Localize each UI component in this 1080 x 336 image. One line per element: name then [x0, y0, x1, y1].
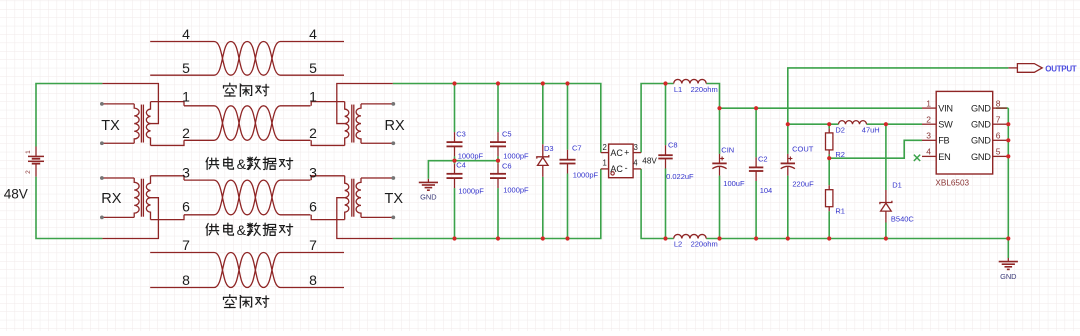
- junction: [827, 122, 831, 126]
- svg-text:8: 8: [309, 272, 317, 288]
- svg-text:8: 8: [996, 98, 1001, 108]
- pair pin number 2 (right): [309, 125, 317, 141]
- svg-text:7: 7: [309, 237, 317, 253]
- value 100uF (CIN): [723, 179, 745, 188]
- label D1: [892, 181, 902, 190]
- wire: bridge + output to L1 (top rail after rectifier): [641, 84, 674, 153]
- inductor L1: [674, 79, 707, 83]
- label 空闲对 (spare pair, bottom): [223, 295, 268, 308]
- value 1000pF (C6): [503, 186, 529, 195]
- svg-text:&: &: [237, 222, 247, 238]
- svg-text:GND: GND: [971, 104, 991, 114]
- pin number 2 (bridge): [602, 143, 606, 152]
- svg-text:1: 1: [309, 88, 317, 104]
- svg-text:C2: C2: [758, 154, 768, 163]
- op-amp/regulator U1 XBL6503: [922, 91, 1007, 174]
- svg-text:RX: RX: [385, 118, 405, 134]
- svg-text:GND: GND: [1000, 272, 1016, 281]
- pair pin number 6 (left): [182, 199, 190, 215]
- svg-text:6: 6: [996, 131, 1001, 141]
- wire: FB line from divider to IC pin 3: [829, 140, 922, 158]
- svg-text:220ohm: 220ohm: [691, 85, 718, 94]
- label 供电&数据对 (pair 3/6): [206, 222, 293, 238]
- capacitor C5: [490, 132, 506, 156]
- pin number 4 (bridge): [633, 159, 638, 168]
- label L1: [674, 85, 682, 94]
- pin number 3 (bridge): [634, 143, 638, 152]
- wire: SW line from COUT node to 47uH: [788, 123, 839, 125]
- svg-text:5: 5: [996, 147, 1001, 157]
- junction: [717, 106, 721, 110]
- junction: [827, 236, 831, 240]
- svg-text:2: 2: [926, 114, 931, 124]
- pair pin number 6 (right): [309, 199, 317, 215]
- svg-text:CIN: CIN: [721, 145, 734, 154]
- resistor R1: [826, 185, 833, 211]
- junction: [496, 159, 500, 163]
- capacitor C2: [749, 157, 763, 181]
- svg-text:L1: L1: [674, 85, 682, 94]
- pair pin number 8 (right): [309, 272, 317, 288]
- svg-text:B540C: B540C: [891, 215, 915, 224]
- svg-text:8: 8: [182, 272, 190, 288]
- pair pin number 1 (left): [182, 88, 190, 104]
- svg-text:C8: C8: [668, 141, 678, 150]
- junction: [663, 81, 667, 85]
- wire: diode D1 branch: [885, 124, 887, 238]
- twisted pair 3/6 (power & data pair): [184, 180, 310, 215]
- junction: [827, 156, 831, 160]
- diode D3: [537, 144, 549, 177]
- svg-text:2: 2: [309, 125, 317, 141]
- label 空闲对 (spare pair, top): [223, 83, 268, 96]
- svg-text:&: &: [237, 156, 247, 172]
- label C3: [456, 130, 466, 139]
- svg-text:1000pF: 1000pF: [503, 152, 529, 161]
- wire: diode D3 branch: [542, 84, 544, 239]
- junction: [452, 81, 456, 85]
- svg-text:1: 1: [182, 88, 190, 104]
- svg-text:1000pF: 1000pF: [503, 186, 529, 195]
- svg-text:L2: L2: [674, 239, 682, 248]
- wire: 47uH to IC pin 2: [867, 123, 923, 125]
- transformer T3 (right RX): [311, 84, 395, 146]
- svg-text:-: -: [625, 163, 628, 173]
- pin number 1 (bridge): [602, 159, 606, 168]
- capacitor C8: [658, 145, 672, 168]
- svg-text:4: 4: [633, 159, 638, 168]
- pair pin number 2 (left): [182, 125, 190, 141]
- svg-text:4: 4: [182, 26, 190, 42]
- svg-text:5: 5: [182, 60, 190, 76]
- label COUT: [792, 145, 814, 154]
- pair pin number 5 (left): [182, 60, 190, 76]
- svg-text:220ohm: 220ohm: [691, 239, 718, 248]
- svg-text:104: 104: [760, 186, 773, 195]
- pair pin number 7 (right): [309, 237, 317, 253]
- svg-text:47uH: 47uH: [862, 126, 880, 135]
- pair pin number 1 (right): [309, 88, 317, 104]
- svg-text:1000pF: 1000pF: [458, 187, 484, 196]
- svg-text:2: 2: [182, 125, 190, 141]
- junction: [1006, 154, 1010, 158]
- pair pin number 7 (left): [182, 237, 190, 253]
- transformer T2 (left RX): [100, 176, 184, 239]
- wire: OUTPUT riser / COUT branch: [788, 68, 1009, 239]
- wire: capacitor C8 branch: [665, 84, 667, 239]
- svg-text:AC: AC: [610, 164, 623, 174]
- capacitor COUT: [781, 154, 795, 176]
- net label OUTPUT: [1045, 64, 1077, 73]
- label C2: [758, 154, 768, 163]
- svg-text:3: 3: [309, 164, 317, 180]
- label CIN: [721, 145, 734, 154]
- wire: capacitor C7 branch: [567, 84, 569, 239]
- junction: [1006, 236, 1010, 240]
- twisted pair 4/5 (spare pair): [150, 42, 344, 76]
- junction: [884, 236, 888, 240]
- ground symbol (left): [419, 179, 438, 202]
- svg-text:2: 2: [602, 143, 606, 152]
- svg-text:AC: AC: [610, 148, 623, 158]
- label RX (right): [385, 118, 405, 134]
- twisted pair 1/2 (power & data pair): [184, 106, 310, 141]
- svg-text:C4: C4: [456, 161, 466, 170]
- wire: L1 to VIN line corner and CIN branch: [706, 84, 719, 239]
- value 0.022uF (C8): [666, 172, 694, 181]
- junction: [754, 236, 758, 240]
- wire: RX2 center tap rail to bridge AC pin 2 (top right rail): [393, 84, 601, 153]
- junction: [717, 236, 721, 240]
- value 220ohm (L2): [691, 239, 718, 248]
- svg-text:5: 5: [309, 60, 317, 76]
- diode D1: [880, 190, 892, 223]
- transformer T4 (right TX): [311, 176, 395, 239]
- svg-text:GND: GND: [971, 120, 991, 130]
- value B540C (D1): [891, 215, 915, 224]
- label C8: [668, 141, 678, 150]
- svg-text:D1: D1: [892, 181, 902, 190]
- pair pin number 4 (right): [309, 26, 317, 42]
- svg-text:GND: GND: [971, 136, 991, 146]
- svg-text:4: 4: [926, 147, 931, 157]
- wire: L2 to bottom rail towards GND: [706, 238, 1008, 240]
- svg-text:7: 7: [996, 114, 1001, 124]
- label D3: [544, 144, 554, 153]
- pair pin number 3 (right): [309, 164, 317, 180]
- capacitor CIN: [712, 154, 726, 176]
- label C5: [502, 130, 512, 139]
- junction: [786, 236, 790, 240]
- svg-text:100uF: 100uF: [723, 179, 745, 188]
- capacitor C3: [447, 132, 463, 156]
- svg-text:1: 1: [602, 159, 606, 168]
- wire: battery positive to TX1 center tap (top left rail): [36, 84, 102, 147]
- label C7: [572, 144, 582, 153]
- svg-text:1000pF: 1000pF: [458, 152, 484, 161]
- label C6: [502, 162, 512, 171]
- label 48V (rectified): [642, 157, 657, 166]
- svg-text:C6: C6: [502, 162, 512, 171]
- svg-text:GND: GND: [420, 193, 436, 202]
- label TX (left): [101, 118, 120, 134]
- label 48V (source): [4, 186, 28, 201]
- pair pin number 8 (left): [182, 272, 190, 288]
- label RX (left): [101, 191, 121, 207]
- value 47uH: [862, 126, 880, 135]
- junction: [496, 236, 500, 240]
- wire: capacitor C5/C6 branch: [497, 84, 499, 239]
- svg-text:3: 3: [182, 164, 190, 180]
- wire: TX2 center tap rail to bridge AC pin 1 (bottom right rail): [393, 169, 601, 239]
- svg-text:3: 3: [926, 131, 931, 141]
- svg-text:R1: R1: [835, 207, 845, 216]
- svg-text:C3: C3: [456, 130, 466, 139]
- net flag OUTPUT: [1008, 64, 1042, 73]
- svg-text:C7: C7: [572, 144, 582, 153]
- label C4: [456, 161, 466, 170]
- junction: [884, 122, 888, 126]
- wire: R2-R1 feedback divider branch: [828, 124, 830, 238]
- svg-text:1000pF: 1000pF: [573, 170, 599, 179]
- label R2: [835, 150, 845, 159]
- wire: C3/C4 midpoint to C5/C6 midpoint and GND stub: [428, 161, 498, 179]
- svg-text:2: 2: [25, 170, 32, 174]
- junction: [565, 81, 569, 85]
- svg-text:R2: R2: [835, 150, 845, 159]
- svg-text:FB: FB: [938, 136, 949, 146]
- svg-text:7: 7: [182, 237, 190, 253]
- wire: capacitor C2 branch: [755, 108, 757, 238]
- svg-text:1: 1: [25, 150, 32, 154]
- junction: [663, 236, 667, 240]
- svg-text:RX: RX: [101, 191, 121, 207]
- transformer T1 (left TX): [100, 84, 184, 146]
- value 1000pF (C5): [503, 152, 529, 161]
- svg-text:TX: TX: [385, 191, 404, 207]
- svg-text:TX: TX: [101, 118, 120, 134]
- svg-text:48V: 48V: [4, 186, 28, 201]
- value 104 (C2): [760, 186, 773, 195]
- capacitor C6: [490, 164, 506, 188]
- twisted pair 7/8 (spare pair): [150, 253, 344, 288]
- label L2: [674, 239, 682, 248]
- svg-text:6: 6: [309, 199, 317, 215]
- pair pin number 5 (right): [309, 60, 317, 76]
- ground symbol (output): [999, 258, 1018, 281]
- wire: battery negative to RX1 center tap (bottom left rail): [36, 177, 102, 239]
- junction: [1006, 122, 1010, 126]
- value 1000pF (C7): [573, 170, 599, 179]
- battery BT1 48V: [25, 147, 44, 177]
- svg-text:C5: C5: [502, 130, 512, 139]
- svg-text:D2: D2: [835, 126, 845, 135]
- svg-text:SW: SW: [938, 120, 953, 130]
- resistor R2: [826, 128, 833, 154]
- svg-text:GND: GND: [971, 152, 991, 162]
- wire: IC GND pins bus to bottom rail: [1007, 108, 1009, 258]
- pair pin number 4 (left): [182, 26, 190, 42]
- capacitor C7: [560, 150, 576, 174]
- pair pin number 3 (left): [182, 164, 190, 180]
- svg-text:XBL6503: XBL6503: [935, 179, 969, 188]
- label 供电&数据对 (pair 1/2): [206, 156, 293, 172]
- label R1: [835, 207, 845, 216]
- svg-text:3: 3: [634, 143, 638, 152]
- junction: [1006, 138, 1010, 142]
- junction: [496, 81, 500, 85]
- part name XBL6503: [935, 179, 969, 188]
- value 220uF (COUT): [792, 179, 814, 188]
- svg-text:220uF: 220uF: [792, 179, 814, 188]
- value 1000pF (C3): [458, 152, 484, 161]
- bridge rectifier U2: [601, 144, 641, 178]
- svg-text:48V: 48V: [642, 157, 657, 166]
- svg-text:D3: D3: [544, 144, 554, 153]
- svg-text:OUTPUT: OUTPUT: [1045, 64, 1077, 73]
- svg-text:+: +: [624, 148, 629, 158]
- svg-text:1: 1: [926, 98, 931, 108]
- svg-text:COUT: COUT: [792, 145, 814, 154]
- capacitor C4: [447, 164, 463, 188]
- wire: capacitor C3/C4 branch: [454, 84, 456, 239]
- label TX (right): [385, 191, 404, 207]
- svg-text:VIN: VIN: [938, 104, 953, 114]
- junction: [754, 106, 758, 110]
- wire: pin8 stub link: [996, 107, 1008, 109]
- wire: bridge - output to L2 (bottom rail after rectifier): [641, 169, 674, 239]
- junction: [541, 81, 545, 85]
- inductor L2: [674, 234, 707, 238]
- svg-text:0.022uF: 0.022uF: [666, 172, 694, 181]
- svg-text:6: 6: [182, 199, 190, 215]
- junction: [541, 236, 545, 240]
- junction: [452, 236, 456, 240]
- value 220ohm (L1): [691, 85, 718, 94]
- junction: [786, 122, 790, 126]
- junction: [565, 236, 569, 240]
- svg-text:EN: EN: [938, 152, 950, 162]
- junction: [452, 159, 456, 163]
- svg-text:4: 4: [309, 26, 317, 42]
- no-connect X on EN pin: [914, 155, 920, 161]
- inductor D2 47uH choke: [839, 121, 867, 125]
- label D2: [835, 126, 845, 135]
- value 1000pF (C4): [458, 187, 484, 196]
- wire: VIN line to IC pin 1: [720, 107, 923, 109]
